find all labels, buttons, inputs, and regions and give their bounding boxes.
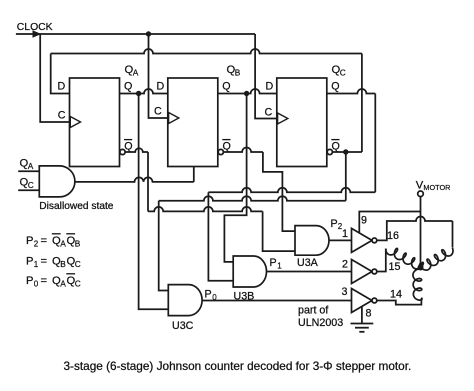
svg-text:Q: Q xyxy=(331,81,339,93)
svg-text:C: C xyxy=(28,180,34,190)
svg-text:D: D xyxy=(157,81,165,93)
flip-flop FF2 (B) pin label D xyxy=(157,81,165,93)
flip-flop FF1 (A) pin label C xyxy=(58,110,66,122)
wire U3B output P1 to inverter 2 xyxy=(267,271,352,273)
svg-text:part of: part of xyxy=(298,305,328,317)
svg-text:B: B xyxy=(235,67,241,77)
label pin 15 xyxy=(389,261,401,273)
svg-text:1: 1 xyxy=(342,228,348,240)
svg-text:=: = xyxy=(41,256,48,268)
node QB junction xyxy=(244,91,249,96)
svg-text:B: B xyxy=(75,239,81,249)
wire U3A output P2 to inverter 1 xyxy=(329,239,352,241)
label P0 xyxy=(205,289,218,303)
wire Q-bar-B leg to U3A top input xyxy=(263,152,295,231)
label pin 3 xyxy=(342,286,348,298)
flip-flop FF1 (A) pin label Q xyxy=(124,81,132,93)
AND gate U3A xyxy=(295,226,329,256)
flip-flop FF1 (A) Q-bar output bubble xyxy=(120,149,125,154)
label equation P1 xyxy=(26,256,81,270)
AND gate U3C xyxy=(168,285,202,316)
svg-text:9: 9 xyxy=(361,215,367,227)
flip-flop FF2 (B) Q-bar output bubble xyxy=(218,149,223,154)
wire Q-bar-B from FF2 bubble xyxy=(224,148,263,153)
ground symbol xyxy=(351,324,374,332)
label equation P0 xyxy=(26,274,81,289)
label QA disallowed input xyxy=(20,157,34,171)
AND gate U3B xyxy=(233,256,266,287)
svg-text:D: D xyxy=(266,81,274,93)
label pin 16 xyxy=(387,230,399,242)
svg-text:2: 2 xyxy=(342,259,348,271)
svg-text:C: C xyxy=(75,259,81,269)
svg-text:1: 1 xyxy=(277,262,282,271)
wire QB leg to U3B top input xyxy=(224,94,246,262)
svg-text:8: 8 xyxy=(366,308,372,320)
svg-text:16: 16 xyxy=(387,230,399,242)
wire Q-bar-A leg and row to U3A bottom input xyxy=(148,152,295,251)
flip-flop FF3 (C) pin label C xyxy=(265,107,273,119)
flip-flop FF2 (B) clock edge triangle xyxy=(169,113,179,124)
wire QC row to U3B bottom input xyxy=(208,94,375,281)
label pin 2 xyxy=(342,259,348,271)
svg-text:=: = xyxy=(41,275,48,287)
wire U3C output P0 to inverter 3 xyxy=(202,300,351,302)
flip-flop FF1 (A) pin label D xyxy=(58,81,66,93)
svg-text:A: A xyxy=(60,279,66,289)
svg-text:Disallowed state: Disallowed state xyxy=(39,201,114,212)
wire QC input to disallowed gate xyxy=(18,189,39,191)
svg-text:A: A xyxy=(133,67,139,77)
label QA xyxy=(125,64,139,78)
svg-text:C: C xyxy=(58,110,66,122)
flip-flop FF3 (C) clock edge triangle xyxy=(278,113,288,124)
svg-text:0: 0 xyxy=(212,293,217,302)
wire CLOCK input with arrowhead xyxy=(16,30,255,38)
label pin 14 xyxy=(390,289,402,301)
D flip-flop FF3 (C) box xyxy=(277,78,327,167)
svg-text:14: 14 xyxy=(390,289,402,301)
wire pin 9 COM to V MOTOR xyxy=(359,212,420,234)
svg-text:B: B xyxy=(60,259,66,269)
node motor star point xyxy=(418,265,424,271)
wire pin 16 output to right winding xyxy=(377,217,452,241)
wire pin 8 to ground xyxy=(361,307,363,324)
svg-text:C: C xyxy=(154,106,162,118)
D flip-flop FF1 (A) box xyxy=(70,78,120,167)
svg-text:=: = xyxy=(41,235,48,247)
wire QA input to disallowed gate xyxy=(18,170,39,172)
wire Q-bar-C from FF3 bubble to feedback riser xyxy=(332,151,362,153)
wire clock to FF1 C input xyxy=(40,34,69,122)
wire Q-bar-C row to U3C top input xyxy=(159,152,346,291)
svg-text:U3A: U3A xyxy=(297,257,319,269)
wire QA leg down to U3C bottom input xyxy=(139,94,169,310)
svg-text:D: D xyxy=(58,81,66,93)
wire clock to FF3 C input xyxy=(255,34,277,119)
label CLOCK xyxy=(17,22,53,33)
node CLOCK junction at FF2 clock branch xyxy=(146,31,151,36)
svg-text:C: C xyxy=(265,107,273,119)
svg-text:U3C: U3C xyxy=(172,320,194,332)
label U3B xyxy=(234,291,255,303)
flip-flop FF3 (C) Q-bar output bubble xyxy=(327,149,332,154)
svg-text:P: P xyxy=(331,218,338,230)
wire QA from FF1 Q to FF2 D xyxy=(120,89,168,94)
label QC disallowed input xyxy=(20,176,34,190)
label pin 8 xyxy=(366,308,372,320)
wire pin 14 output to bottom winding xyxy=(377,299,421,305)
inverter driver 3 (ULN2003) xyxy=(352,289,377,313)
label QB xyxy=(227,64,241,78)
inverter driver 2 (ULN2003) xyxy=(352,260,377,284)
caption xyxy=(64,359,412,373)
svg-text:P: P xyxy=(270,257,277,269)
svg-text:P: P xyxy=(26,235,33,247)
svg-text:MOTOR: MOTOR xyxy=(423,183,450,192)
svg-text:Q: Q xyxy=(124,81,132,93)
flip-flop FF2 (B) pin label C xyxy=(154,106,162,118)
wire V MOTOR down to star point xyxy=(420,197,422,268)
label part of ULN2003 xyxy=(298,305,343,330)
svg-text:CLOCK: CLOCK xyxy=(17,22,53,33)
flip-flop FF1 (A) clock edge triangle xyxy=(70,117,80,128)
label pin 9 xyxy=(361,215,367,227)
flip-flop FF2 (B) pin label Q-bar xyxy=(222,140,231,153)
svg-text:0: 0 xyxy=(34,280,39,289)
svg-text:15: 15 xyxy=(389,261,401,273)
motor winding right (pin 16) xyxy=(420,221,453,270)
svg-text:2: 2 xyxy=(34,240,39,249)
wire disallowed gate output to FF2 bottom xyxy=(75,167,194,182)
svg-text:A: A xyxy=(60,239,66,249)
svg-text:A: A xyxy=(28,161,34,171)
motor winding left (pin 15) xyxy=(386,248,424,268)
svg-text:1: 1 xyxy=(34,260,39,269)
label pin 1 xyxy=(342,228,348,240)
power V MOTOR terminal xyxy=(416,179,451,196)
svg-text:3: 3 xyxy=(342,286,348,298)
node Q-bar-C junction xyxy=(343,149,348,154)
wire pin 15 output riser xyxy=(377,249,386,272)
label U3C xyxy=(172,320,194,332)
wire QC from FF3 Q to right corner xyxy=(326,89,375,94)
node QA junction xyxy=(136,91,141,96)
svg-text:P: P xyxy=(26,256,33,268)
label Disallowed state xyxy=(39,201,114,212)
svg-text:Q: Q xyxy=(222,81,230,93)
svg-text:C: C xyxy=(340,67,346,77)
svg-text:ULN2003: ULN2003 xyxy=(298,317,343,329)
svg-text:C: C xyxy=(75,279,81,289)
wire Q-bar-A from FF1 bubble down xyxy=(126,148,148,152)
label equation P2 xyxy=(26,234,81,249)
inverter driver 1 (ULN2003) xyxy=(352,228,377,252)
svg-text:3-stage (6-stage) Johnson coun: 3-stage (6-stage) Johnson counter decode… xyxy=(64,359,412,373)
motor winding bottom (pin 14) xyxy=(413,269,422,300)
label P1 xyxy=(270,257,283,271)
wire feedback Q-bar-C to D of FF1 xyxy=(51,49,362,152)
D flip-flop FF2 (B) box xyxy=(168,78,218,167)
svg-text:P: P xyxy=(205,289,212,301)
flip-flop FF3 (C) pin label D xyxy=(266,81,274,93)
wire clock to FF2 C input xyxy=(149,34,168,118)
svg-text:P: P xyxy=(26,275,33,287)
label P2 xyxy=(331,218,343,231)
flip-flop FF3 (C) pin label Q xyxy=(331,81,339,93)
AND gate disallowed state detector xyxy=(39,166,75,197)
flip-flop FF3 (C) pin label Q-bar xyxy=(331,140,340,153)
label QC xyxy=(332,64,346,78)
flip-flop FF1 (A) pin label Q-bar xyxy=(124,140,133,153)
flip-flop FF2 (B) pin label Q xyxy=(222,81,230,93)
label U3A xyxy=(297,257,319,269)
wire QB from FF2 Q to FF3 D xyxy=(218,89,277,94)
